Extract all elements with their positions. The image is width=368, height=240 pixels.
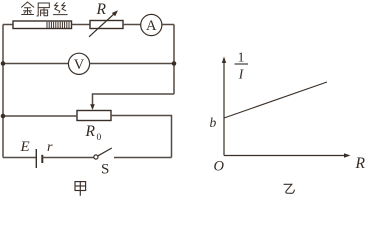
svg-text:E: E (20, 139, 30, 155)
svg-text:1: 1 (238, 50, 245, 65)
svg-text:I: I (238, 67, 245, 82)
wiper arrowhead (90, 104, 95, 110)
svg-text:R: R (355, 155, 366, 172)
rheostat R body (90, 21, 123, 29)
wire voltmeter row left (3, 63, 69, 65)
svg-text:V: V (74, 57, 85, 73)
wire between metal wire and rheostat (72, 24, 91, 26)
graph line (224, 82, 327, 118)
属 (37, 3, 49, 16)
wire battery to switch (42, 157, 94, 159)
svg-text:R: R (85, 123, 96, 140)
金 (22, 2, 28, 7)
switch lever (98, 148, 112, 156)
label 乙 (284, 184, 295, 193)
label 金属丝 (22, 2, 68, 16)
potentiometer R0 body (77, 111, 111, 121)
wire top row left segment (3, 24, 13, 26)
svg-text:b: b (210, 115, 217, 130)
wire rheostat to ammeter (123, 24, 141, 26)
wire voltmeter row right (89, 63, 174, 65)
wire right upper rail (173, 25, 175, 95)
resistor metal wire (金属丝) body (13, 21, 72, 29)
label 甲 (75, 182, 86, 196)
switch S pivot (94, 155, 98, 159)
svg-text:O: O (214, 159, 225, 175)
rheostat R arrow (89, 14, 115, 37)
svg-text:A: A (146, 18, 157, 34)
svg-text:R: R (96, 1, 107, 18)
wire switch to right (114, 157, 172, 159)
wire R0 row right (111, 116, 172, 158)
metal wire coil hatching (47, 22, 69, 28)
ammeter A (141, 14, 162, 35)
svg-text:S: S (101, 162, 109, 178)
node left V junction (1, 61, 6, 66)
wire wiper from right rail (93, 94, 175, 105)
wire left rail (2, 25, 4, 158)
voltmeter V (68, 53, 89, 74)
node right V junction (172, 61, 177, 66)
wire ammeter to right rail (161, 24, 174, 26)
graph x axis (224, 155, 344, 157)
battery short plate (41, 155, 43, 163)
wire bottom row left to battery (3, 157, 36, 159)
wire R0 row left (3, 115, 77, 117)
svg-text:r: r (47, 140, 53, 155)
battery E,r long plate (35, 149, 37, 168)
node left R0 junction (1, 114, 6, 119)
svg-text:0: 0 (97, 133, 102, 143)
graph y axis (223, 62, 225, 156)
丝 (55, 3, 59, 11)
